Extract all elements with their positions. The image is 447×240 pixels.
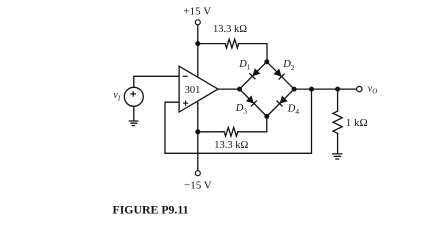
terminal -15V <box>195 171 200 176</box>
wire: top resistor to diamond top vertex <box>239 44 267 62</box>
terminal v_O <box>357 86 362 91</box>
resistor R1 13.3 kOhm (top) <box>225 39 239 48</box>
wire: 1k resistor to ground <box>337 133 339 153</box>
wire: diamond bottom vertex down to bottom branch <box>238 116 267 131</box>
diode D2 <box>274 69 285 80</box>
wire: diode bridge edge top-left <box>240 62 267 89</box>
terminal +15V <box>195 20 200 25</box>
svg-text:D3: D3 <box>235 103 248 116</box>
node: bottom supply/resistor junction <box>195 129 200 134</box>
wire: source bottom to ground <box>133 106 135 120</box>
wire: source top to inverting input <box>134 76 179 87</box>
node: diamond left vertex <box>237 87 242 92</box>
diode D4 <box>277 96 288 107</box>
node: diamond top vertex <box>264 59 269 64</box>
node: diamond bottom vertex <box>264 114 269 119</box>
voltage source v_I <box>124 87 143 106</box>
label -15 V <box>184 180 212 192</box>
ground (source) <box>129 121 137 126</box>
label 13.3 kOhm (top) <box>213 24 247 35</box>
label 13.3 kOhm (bottom) <box>214 140 248 151</box>
label +15 V <box>183 5 211 17</box>
svg-text:D2: D2 <box>282 59 295 72</box>
node: supply/resistor junction (top) <box>195 41 200 46</box>
label v_I <box>113 90 120 103</box>
wire: diamond right vertex to output terminal <box>294 88 357 90</box>
wire: top junction to top resistor <box>198 43 225 45</box>
svg-text:13.3 kΩ: 13.3 kΩ <box>214 140 248 151</box>
svg-text:+15 V: +15 V <box>183 5 211 17</box>
svg-text:1 kΩ: 1 kΩ <box>346 117 368 129</box>
node: diamond right vertex <box>292 87 297 92</box>
svg-text:vO: vO <box>368 84 378 96</box>
label D1 <box>238 59 251 72</box>
resistor R2 13.3 kOhm (bottom) <box>224 127 238 136</box>
wire: diode bridge edge top-right <box>267 62 294 89</box>
label D2 <box>282 59 295 72</box>
diode D3 <box>246 95 257 106</box>
diode D1 <box>249 68 260 79</box>
svg-text:301: 301 <box>185 85 201 96</box>
op-amp U1 301 <box>179 66 218 112</box>
svg-text:−15 V: −15 V <box>184 180 212 192</box>
wire: +15V supply rail down through op-amp to -15V terminal <box>197 25 199 171</box>
svg-text:vI: vI <box>113 90 120 103</box>
resistor R3 1 kOhm (vertical) <box>333 111 342 133</box>
label D4 <box>287 103 300 116</box>
wire: op-amp output to diamond left vertex <box>218 88 240 90</box>
label v_O <box>368 84 378 96</box>
label 1 kOhm <box>346 117 368 129</box>
ground (1k resistor) <box>333 154 342 159</box>
wire: diode bridge edge bottom-left <box>240 89 267 116</box>
label D3 <box>235 103 248 116</box>
svg-text:FIGURE P9.11: FIGURE P9.11 <box>113 202 189 216</box>
node: feedback junction on output wire <box>309 87 314 92</box>
svg-text:D4: D4 <box>287 103 300 116</box>
wire: diode bridge edge bottom-right <box>267 89 294 116</box>
node: 1k junction on output wire <box>335 87 340 92</box>
label FIGURE P9.11 <box>113 202 189 216</box>
wire: output node down to 1k resistor <box>337 89 339 111</box>
wire: bottom resistor to supply junction <box>198 131 224 133</box>
wire: feedback from output node down and left to non-inverting input <box>165 89 312 153</box>
svg-text:13.3 kΩ: 13.3 kΩ <box>213 24 247 35</box>
svg-text:D1: D1 <box>238 59 251 72</box>
